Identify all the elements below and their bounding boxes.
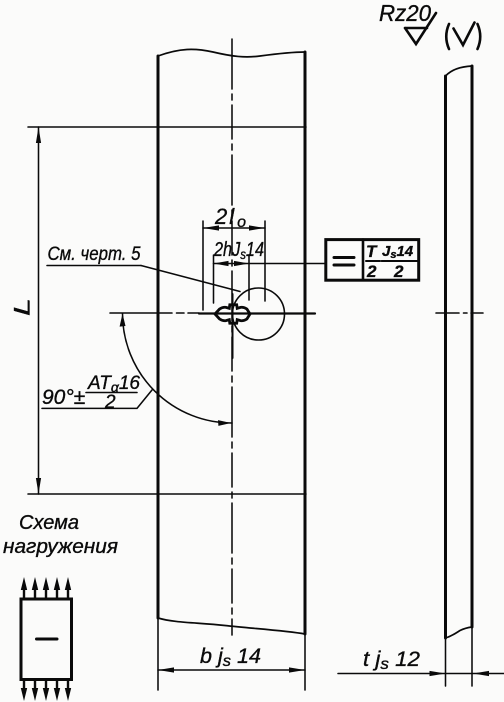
2l0 left arrow xyxy=(203,225,219,230)
centerline solid through slot xyxy=(232,294,234,358)
label shelf xyxy=(42,390,152,408)
b left arrow xyxy=(158,667,174,672)
dimension L line xyxy=(38,127,40,494)
main strip left edge xyxy=(157,56,160,618)
arc top arrow xyxy=(120,314,126,327)
symmetry symbol = xyxy=(334,258,354,266)
dim 2l0 line xyxy=(203,227,265,229)
detail circle xyxy=(233,288,285,340)
extension line below left edge xyxy=(157,618,159,690)
dim 2h line + leader to frame xyxy=(214,263,326,265)
roughness symbol triangle xyxy=(405,13,436,44)
svg-text:t js 12: t js 12 xyxy=(363,648,420,673)
svg-text:См. черт. 5: См. черт. 5 xyxy=(48,243,141,265)
svg-text:b js 14: b js 14 xyxy=(200,645,261,670)
main strip right edge xyxy=(304,52,307,634)
leader line See-fig-5 xyxy=(141,266,240,292)
dim 2l0 extension lines xyxy=(203,221,265,310)
frame divider xyxy=(362,240,365,281)
svg-text:2: 2 xyxy=(393,262,404,281)
side view top edge xyxy=(446,66,473,76)
dim b line xyxy=(158,669,305,671)
svg-text:2: 2 xyxy=(104,392,116,413)
slot mark inside xyxy=(37,638,58,641)
bottom break (wavy) line xyxy=(158,618,305,634)
svg-text:нагружения: нагружения xyxy=(3,536,118,558)
underline xyxy=(47,265,141,267)
bottom arrows xyxy=(24,680,68,695)
svg-text:Схема: Схема xyxy=(19,512,79,534)
side view bottom wavy xyxy=(446,627,473,638)
2h right arrow xyxy=(234,261,249,266)
extension line below right edge xyxy=(304,634,306,690)
t left arrow (points right) xyxy=(430,671,446,676)
L top arrow xyxy=(36,127,41,143)
side view extensions below xyxy=(446,627,473,686)
upper gauge line xyxy=(28,126,306,128)
horizontal centerline at side view xyxy=(436,312,483,314)
dim t line right part xyxy=(446,673,504,675)
(v) check mark xyxy=(454,23,475,46)
dim 2h extension lines xyxy=(214,255,250,303)
90 degree arc xyxy=(123,314,233,424)
side view right edge xyxy=(471,66,474,627)
svg-text:90°±: 90°± xyxy=(42,386,85,409)
horizontal centerline left of slot xyxy=(110,312,199,314)
t right arrow (points left) xyxy=(473,671,489,676)
arc bottom arrow xyxy=(218,420,231,426)
2l0 right arrow xyxy=(249,225,265,230)
lower gauge line xyxy=(28,493,306,495)
slot (keyhole cross) xyxy=(215,305,250,324)
vertical centerline of strip xyxy=(231,39,233,635)
dim t line left part xyxy=(338,673,446,675)
(v) right paren xyxy=(478,24,481,49)
svg-text:L: L xyxy=(10,298,35,316)
top arrows xyxy=(24,584,68,599)
svg-text:Rz20: Rz20 xyxy=(379,0,431,26)
b right arrow xyxy=(289,667,305,672)
L bottom arrow xyxy=(36,478,41,494)
tolerance frame xyxy=(326,240,419,281)
svg-text:T: T xyxy=(366,242,378,261)
top break (wavy) line xyxy=(158,49,305,56)
(v) symbol left paren xyxy=(446,24,449,49)
side view left edge xyxy=(444,76,447,638)
svg-text:2hJs14: 2hJs14 xyxy=(213,239,264,262)
2h left arrow xyxy=(214,261,229,266)
svg-text:Js14: Js14 xyxy=(382,243,414,261)
svg-text:2: 2 xyxy=(366,262,377,281)
loading scheme rectangle xyxy=(21,599,72,680)
